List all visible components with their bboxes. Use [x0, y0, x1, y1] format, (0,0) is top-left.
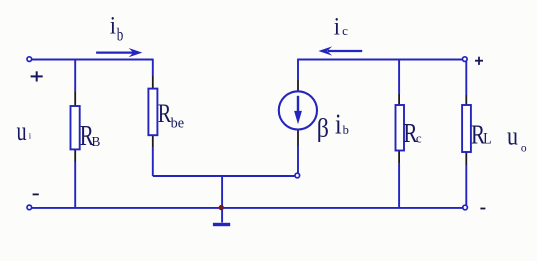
svg-text:be: be	[171, 115, 184, 131]
svg-text:c: c	[416, 131, 422, 146]
svg-text:β: β	[317, 115, 329, 143]
svg-text:u: u	[17, 117, 27, 146]
svg-text:c: c	[342, 23, 348, 38]
svg-text:B: B	[92, 134, 101, 149]
svg-text:u: u	[507, 123, 518, 151]
svg-text:o: o	[521, 142, 527, 154]
svg-text:L: L	[483, 131, 492, 148]
svg-text:b: b	[343, 123, 349, 137]
svg-text:i: i	[29, 131, 32, 141]
svg-text:R: R	[158, 100, 172, 129]
svg-text:i: i	[110, 12, 117, 39]
svg-text:i: i	[334, 13, 341, 40]
svg-text:i: i	[335, 109, 342, 140]
svg-text:b: b	[117, 26, 124, 45]
